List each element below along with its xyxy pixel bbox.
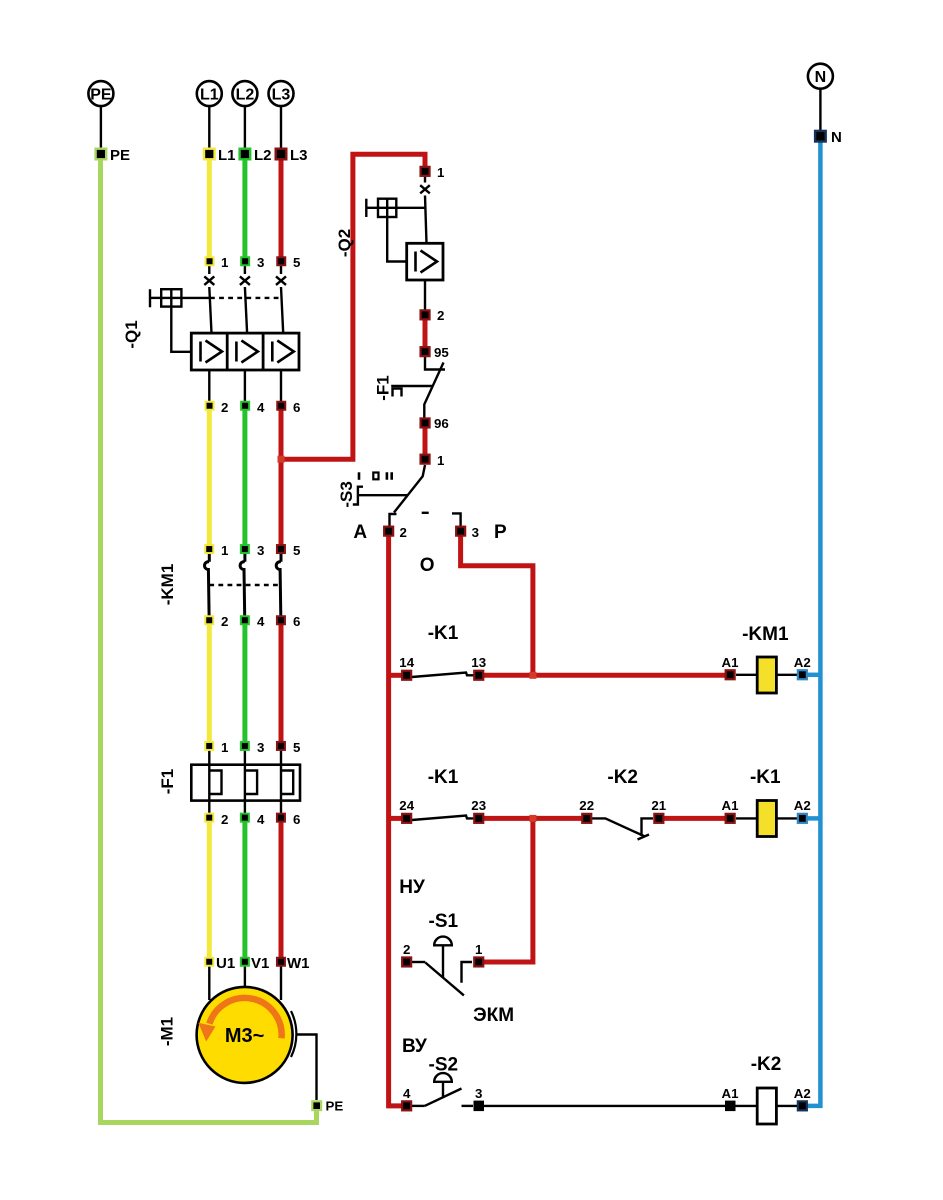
svg-text:1: 1 [221,255,229,270]
mechanism Q2 actuator [366,199,425,262]
wire t96 to S3 t1 [423,426,428,456]
svg-text:-K1: -K1 [428,767,459,788]
svg-text:N: N [831,129,842,146]
terminal K1-14 [402,671,411,680]
svg-text:13: 13 [471,655,486,670]
wire K1 13 to KM1 A1 [482,673,726,678]
node junction K1 23 branch [529,815,536,822]
terminal K1-A1 [726,814,735,823]
svg-text:L2: L2 [236,87,255,104]
wire Q1 pole2 lead [245,261,247,333]
stem S1 [442,946,444,978]
svg-text:6: 6 [293,812,300,827]
wire W1 to motor [280,963,282,1000]
svg-text:3: 3 [257,255,264,270]
box F1 [191,765,300,801]
svg-text:A2: A2 [794,1086,811,1101]
stem S2 [442,1083,444,1097]
terminal circle L1 [197,81,222,149]
blade K1 13-14 [412,673,474,678]
svg-text:A2: A2 [794,655,811,670]
wire P branch [461,535,533,673]
terminal F1-95 [421,347,430,356]
blade S3 [394,465,425,513]
terminal F1-2 [205,814,213,822]
breaker box Q2 [407,243,443,280]
terminal S1-1 [474,957,483,966]
svg-text:95: 95 [434,345,449,360]
hook S3 position A [390,514,397,526]
wire KM1 A2 to N (blue stub) [806,673,820,678]
svg-text:1: 1 [475,942,483,957]
svg-text:22: 22 [579,798,594,813]
terminal L3 top [276,147,308,164]
svg-text:2: 2 [403,942,410,957]
svg-text:ЭКМ: ЭКМ [473,1005,514,1026]
svg-text:PE: PE [110,147,130,164]
linkage dashed Q1 [210,297,282,299]
wire K1 A2 to N (blue stub) [806,816,820,821]
node L3/Q2 junction [278,456,285,463]
hook S3 position P [452,513,461,526]
terminal S3-3 [456,527,465,536]
terminal S2-4 [402,1101,411,1110]
svg-text:L3: L3 [290,147,308,164]
hook S1-1 [462,962,473,983]
node junction P/K1 [529,672,536,679]
svg-text:Р: Р [494,522,507,543]
heater F1 pole1 [209,746,221,817]
terminal KM1-4 [241,616,249,624]
breaker box Q1 [191,333,299,370]
button head S1 [434,937,452,946]
svg-text:-F1: -F1 [374,375,393,401]
wire coil K2 to A2 [776,1105,797,1107]
svg-text:-K2: -K2 [607,767,638,788]
terminal Q1-4 [241,402,249,410]
lead S2-4 [412,1105,425,1107]
terminal S3-2 [384,527,393,536]
svg-text:2: 2 [221,812,228,827]
terminal L2 top [240,147,272,164]
terminal Q1-2 [206,402,214,410]
wire A1 to coil K2 [735,1105,757,1107]
mark position II [387,472,392,480]
svg-text:-M1: -M1 [158,1017,177,1046]
svg-text:U1: U1 [216,955,235,972]
svg-text:3: 3 [257,543,264,558]
wire A1 to coil K1 [736,817,757,819]
contact cross Q2 [420,185,430,193]
terminal circle L2 [232,81,257,149]
svg-text:L1: L1 [218,147,236,164]
terminal K2-22 [582,814,591,823]
wire Q2 lead top [425,176,427,243]
svg-text:1: 1 [437,165,445,180]
svg-text:1: 1 [221,740,229,755]
svg-text:M3~: M3~ [225,1025,264,1047]
terminal L1 top [204,147,236,164]
motor arrow head [198,1023,215,1042]
terminal KM1-A1 [726,670,735,679]
svg-text:-K1: -K1 [750,767,781,788]
svg-text:3: 3 [475,1086,482,1101]
terminal PE top [96,147,130,164]
terminal S3-1 [421,455,430,464]
blade K1 23-24 [412,816,474,821]
heater F1 pole3 [281,746,293,817]
svg-text:-Q1: -Q1 [122,320,141,348]
terminal Q1-3 [241,257,249,265]
svg-text:A1: A1 [722,1086,740,1101]
terminal Q2-1 [421,167,430,176]
lead S2-3 [462,1105,474,1107]
contact cross pole1 [204,276,214,285]
symbol trip Q2 [416,251,438,273]
svg-text:2: 2 [437,308,444,323]
terminal circle PE [88,81,113,149]
terminal F1-4 [241,814,249,822]
linkage dashed KM1 [209,584,281,586]
wire V1 to motor [244,963,246,988]
wire L2 (green) [242,154,247,963]
svg-text:6: 6 [293,400,300,415]
mechanism Q1 actuator [150,289,209,352]
wire coil to A2 [776,674,797,676]
coil K2 [757,1088,776,1124]
motor rotation arrow [209,998,281,1038]
wire Q1 pole1 lead [209,261,211,333]
svg-text:A1: A1 [722,655,740,670]
wire A1 to coil [736,674,757,676]
svg-text:3: 3 [257,740,264,755]
svg-text:А: А [353,522,367,543]
tick K2 NC [638,835,650,840]
motor M1 circle [197,987,293,1083]
wire N (blue) [806,136,820,1106]
svg-text:-KM1: -KM1 [742,624,789,645]
terminal K2-21 [654,814,663,823]
svg-text:-KM1: -KM1 [158,564,177,606]
mark S3 position O [422,512,429,514]
svg-text:2: 2 [400,525,407,540]
stop bar K2 NC [642,818,654,836]
contact KM1 pole1 [205,549,210,616]
terminal V1 [241,958,249,966]
svg-text:-F1: -F1 [158,769,177,795]
terminal Q1-1 [206,257,214,265]
contact cross pole2 [240,276,250,285]
coil K1 [757,801,776,837]
svg-text:V1: V1 [251,955,269,972]
wire K1 23 to K2 22 [482,816,582,821]
svg-text:-Q2: -Q2 [335,229,354,257]
terminal KM1-3 [241,545,249,553]
blade K2 NC [592,818,645,836]
terminal S2-3 [474,1101,485,1112]
wire Q1 pole1 bottom [208,370,210,406]
svg-text:4: 4 [403,1086,411,1101]
terminal K1-A2 [798,814,807,823]
wire coil K1 to A2 [776,817,797,819]
mark position I [358,472,361,480]
symbol trip pole3 [272,341,294,363]
svg-text:96: 96 [434,416,449,431]
terminal circle N [808,64,833,131]
symbol trip pole1 [201,341,223,363]
terminal KM1-6 [277,616,285,624]
lead S1-2 [412,961,425,963]
motor shaft bracket [291,1011,296,1057]
blade S2 [425,1089,462,1106]
svg-text:24: 24 [399,798,414,813]
svg-text:1: 1 [221,543,229,558]
svg-text:PE: PE [90,87,112,104]
terminal W1 [277,958,285,966]
svg-text:О: О [420,555,435,576]
terminal Q2-2 [421,310,430,319]
wire trunk A down [389,535,402,1106]
svg-text:21: 21 [651,798,666,813]
wire L3 to Q2 branch (red) [281,154,425,459]
wire PE (yellow-green) [101,156,317,1123]
terminal circle L3 [269,81,294,149]
svg-text:PE: PE [326,1099,344,1114]
contact KM1 pole3 [276,549,281,616]
svg-text:НУ: НУ [399,877,425,898]
wire trunk to K1 24 [389,816,402,821]
terminal KM1-1 [205,545,213,553]
svg-text:14: 14 [399,655,414,670]
svg-text:L2: L2 [254,147,272,164]
terminal KM1-A2 [798,670,807,679]
wire L3 (red) [279,154,284,963]
svg-text:4: 4 [257,812,265,827]
svg-text:5: 5 [293,740,301,755]
svg-text:-K2: -K2 [751,1054,782,1075]
coil KM1 [757,657,776,693]
contact cross pole3 [276,276,286,285]
wire Q1 pole3 bottom [280,370,282,406]
svg-text:3: 3 [472,525,479,540]
svg-text:A2: A2 [794,798,811,813]
svg-text:L1: L1 [200,87,219,104]
svg-text:-K1: -K1 [428,623,459,644]
symbol trip pole2 [236,341,258,363]
terminal KM1-5 [277,545,285,553]
terminal K1-13 [474,671,483,680]
wire trunk to K1 14 [389,673,402,678]
terminal K1-23 [474,814,483,823]
wire motor to PE terminal [296,1035,317,1101]
wire Q1 pole3 lead [281,261,283,333]
svg-text:23: 23 [471,798,486,813]
terminal K1-24 [402,814,411,823]
svg-text:6: 6 [293,614,300,629]
svg-text:5: 5 [293,255,301,270]
terminal Q1-6 [277,402,285,410]
button head S2 [434,1073,452,1082]
wire junction down to S1 [482,818,533,962]
svg-text:N: N [815,69,827,86]
wire Q1 pole2 bottom [244,370,246,406]
wire Q2 box to t2 [424,280,426,311]
terminal motor PE [312,1101,321,1110]
terminal U1 [205,958,213,966]
contact KM1 pole2 [240,549,245,616]
svg-text:4: 4 [257,614,265,629]
wire U1 to motor [208,963,210,1000]
wire K2 21 to K1 A1 [663,816,726,821]
svg-text:L3: L3 [272,87,291,104]
wire S2-3 to K2 A1 [484,1105,726,1107]
svg-text:1: 1 [437,453,445,468]
terminal F1-96 [421,418,430,427]
contact F1 NC [425,357,445,370]
terminal K2-A1 [725,1101,736,1112]
svg-text:-S1: -S1 [429,911,459,932]
terminal F1-1 [205,742,213,750]
svg-text:ВУ: ВУ [402,1036,427,1057]
terminal S1-2 [402,957,411,966]
svg-text:4: 4 [257,400,265,415]
svg-text:A1: A1 [722,798,740,813]
svg-text:5: 5 [293,543,301,558]
actuator F1 NC [391,385,432,387]
terminal F1-3 [241,742,249,750]
heater F1 pole2 [245,746,257,817]
terminal KM1-2 [205,616,213,624]
terminal F1-5 [277,742,285,750]
wire Q2 t2 to t95 [423,318,428,348]
svg-text:2: 2 [221,614,228,629]
handle S3 [353,487,363,505]
wire L1 (yellow) [207,154,212,963]
terminal K2-A2 [798,1101,807,1110]
terminal Q1-5 [277,257,285,265]
svg-text:2: 2 [221,400,228,415]
blade S1 [425,963,464,996]
terminal F1-6 [277,814,285,822]
mark position 0 [373,473,378,480]
terminal N top [815,129,842,146]
svg-text:W1: W1 [287,955,310,972]
